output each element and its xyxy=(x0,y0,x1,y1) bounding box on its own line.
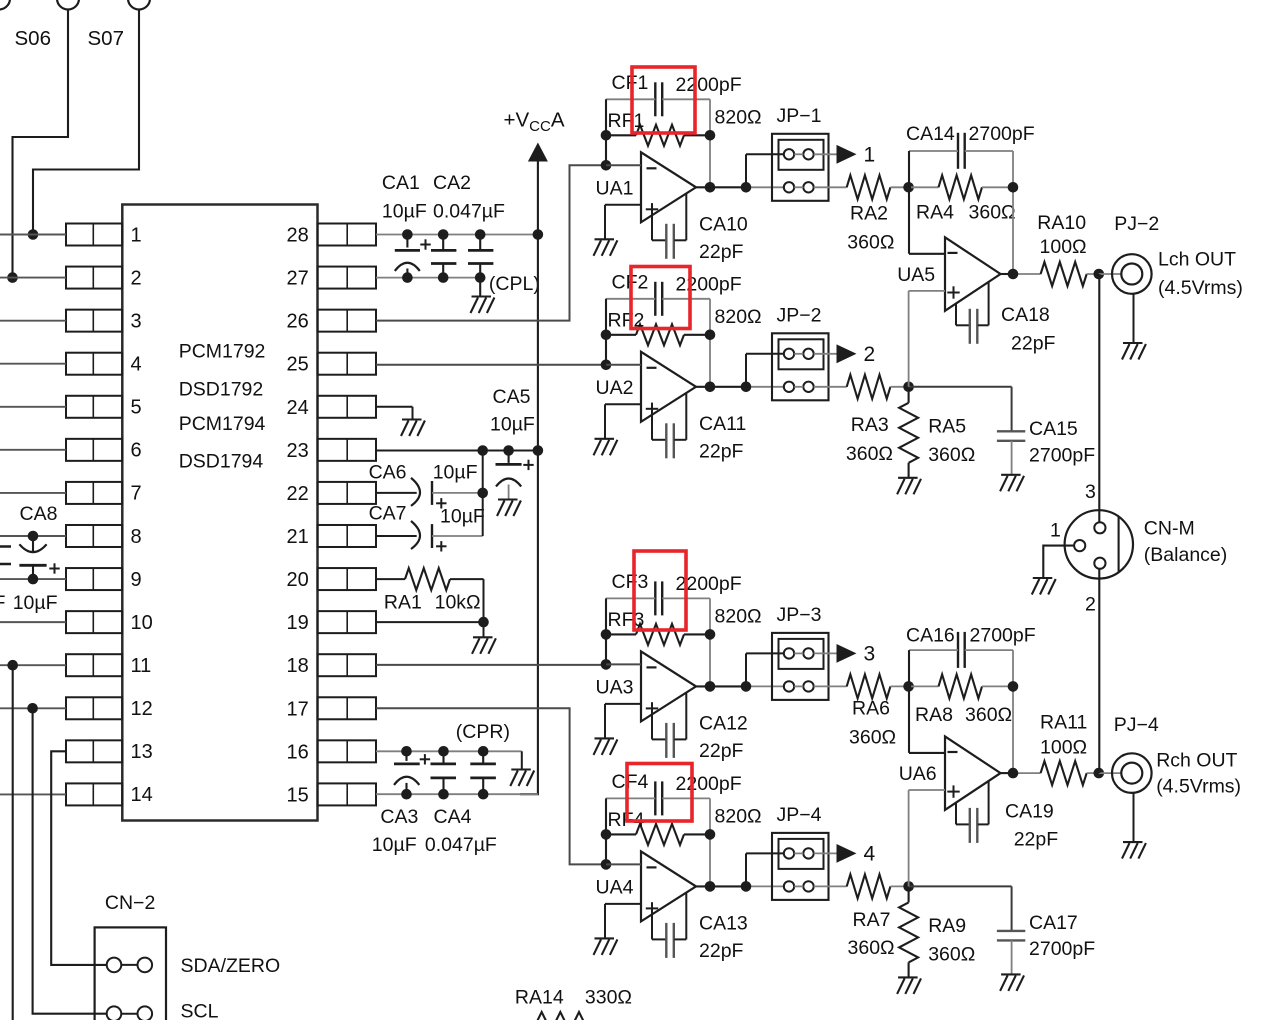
jumper JP-2 pin circles xyxy=(784,349,814,392)
label CA16 xyxy=(906,625,955,647)
svg-text:820Ω: 820Ω xyxy=(715,106,762,128)
svg-text:(Balance): (Balance) xyxy=(1144,544,1227,566)
junction dot pin 11 wire xyxy=(7,660,18,671)
label UA1 xyxy=(596,177,634,199)
svg-text:RA7: RA7 xyxy=(853,909,891,931)
value 10uF (CA7) xyxy=(440,505,485,527)
svg-text:UA5: UA5 xyxy=(897,264,935,286)
label CA2 xyxy=(433,172,471,194)
capacitor CA7 (electrolytic on pin 21) xyxy=(376,521,483,549)
label S07 xyxy=(88,27,124,50)
wire feedback left vertical UA3 xyxy=(605,598,607,664)
wire JP-2 to output arrow xyxy=(814,353,837,355)
wire jack PJ−2 to ground xyxy=(1133,294,1135,343)
junction dot UA3 inverting input xyxy=(601,659,612,670)
wire feedback right vertical UA6 xyxy=(1012,650,1014,773)
wire UA1 output xyxy=(696,186,785,188)
wire pin 5 to left edge xyxy=(0,406,66,408)
svg-text:22pF: 22pF xyxy=(699,440,744,462)
svg-text:RA5: RA5 xyxy=(928,415,966,437)
value 0.047uF (CA2) xyxy=(433,201,505,223)
red highlight box CF2 xyxy=(631,267,690,329)
svg-text:15: 15 xyxy=(287,784,309,806)
svg-text:SCL: SCL xyxy=(181,1000,219,1020)
pin 17 number xyxy=(287,698,309,720)
svg-text:2200pF: 2200pF xyxy=(676,773,742,795)
ground symbol pin 24 xyxy=(401,420,425,437)
cut-off capacitor plates at left edge xyxy=(0,547,11,565)
value 10uF (CA3) xyxy=(372,834,417,856)
junction dots pin 27 rail xyxy=(402,272,485,283)
IC name DSD1792 xyxy=(179,379,264,401)
red highlight box CF3 xyxy=(634,551,686,630)
pin 16 number xyxy=(287,741,309,763)
svg-text:Rch OUT: Rch OUT xyxy=(1156,750,1237,772)
red highlight box CF1 xyxy=(632,67,695,133)
wire UA3 output to JP-3 top row xyxy=(746,653,784,686)
svg-text:CA3: CA3 xyxy=(380,806,418,828)
wire pin 9 to left edge xyxy=(0,578,66,580)
resistor RA9 360 ohm to ground xyxy=(899,886,918,977)
ground below RA9 xyxy=(897,977,921,994)
wire pin 16 rail xyxy=(376,750,522,752)
jumper JP-4 outer box xyxy=(772,833,829,900)
label UA4 xyxy=(596,876,634,898)
svg-text:2200pF: 2200pF xyxy=(676,74,742,96)
svg-text:20: 20 xyxy=(287,569,309,591)
label RA6 xyxy=(852,697,890,719)
svg-text:CN−2: CN−2 xyxy=(105,892,155,914)
ground below CA17 xyxy=(1000,974,1024,991)
junction dots UA2 output xyxy=(705,382,752,393)
wire to jack PJ−4 xyxy=(1099,772,1122,774)
wire JP-1 to output arrow xyxy=(814,153,837,155)
capacitor CA19 22pF xyxy=(956,780,989,843)
IC name PCM1794 xyxy=(179,413,266,435)
output arrow 2 xyxy=(837,344,857,363)
jumper JP-2 outer box xyxy=(772,333,829,400)
svg-text:CA16: CA16 xyxy=(906,625,955,647)
capacitor CF1 plates xyxy=(655,82,662,116)
wire pin 11 down to bottom edge xyxy=(12,665,14,1020)
ground below CA15 xyxy=(1000,475,1024,492)
junction dot RA8 right node xyxy=(1008,681,1019,692)
CN-M pin 3 circle xyxy=(1094,522,1105,533)
pin 26 box xyxy=(318,310,377,332)
label RA1 xyxy=(384,592,422,614)
wire UA6 non-inverting input xyxy=(909,790,945,886)
svg-text:360Ω: 360Ω xyxy=(928,444,975,466)
label UA2 xyxy=(596,377,634,399)
svg-text:CA2: CA2 xyxy=(433,172,471,194)
label CA1 xyxy=(382,172,420,194)
wire UA1 output to JP-1 top row xyxy=(746,154,784,187)
pin 13 box xyxy=(66,740,122,762)
pin 23 box xyxy=(318,439,377,461)
wire UA4 output to JP-4 top row xyxy=(746,853,784,886)
capacitor CA13 22pF xyxy=(652,893,686,958)
svg-text:JP−4: JP−4 xyxy=(777,804,822,826)
output number 1 xyxy=(864,143,876,166)
svg-text:2700pF: 2700pF xyxy=(969,123,1035,145)
svg-text:JP−2: JP−2 xyxy=(777,305,822,327)
svg-text:CA15: CA15 xyxy=(1029,418,1078,440)
IC name PCM1792 xyxy=(179,341,266,363)
svg-text:2700pF: 2700pF xyxy=(1029,938,1095,960)
svg-text:22pF: 22pF xyxy=(699,740,744,762)
svg-text:28: 28 xyxy=(287,225,309,247)
wire CN-M pin 2 to RA11 node xyxy=(1098,569,1100,774)
pin 20 box xyxy=(318,568,377,590)
svg-text:10µF: 10µF xyxy=(372,834,417,856)
wire JP-3 to RA resistor xyxy=(814,685,847,687)
ground below RA1 xyxy=(472,637,496,654)
value 100 ohm (RA11) xyxy=(1040,737,1087,759)
junction dots feedback UA1 xyxy=(601,130,716,141)
svg-text:PCM1792: PCM1792 xyxy=(179,341,266,363)
wire feedback left vertical UA4 xyxy=(605,798,607,864)
junction dot UA6 output xyxy=(1008,768,1019,779)
op-amp UA2 triangle xyxy=(641,352,696,422)
connector CN-M body circle xyxy=(1065,510,1133,578)
svg-text:2700pF: 2700pF xyxy=(970,625,1036,647)
pin 6 box xyxy=(66,439,122,461)
pin 14 box xyxy=(66,783,122,805)
value 820 ohm (RF1) xyxy=(715,106,762,128)
wire pin 14 to left edge xyxy=(0,793,66,795)
svg-text:9: 9 xyxy=(131,569,142,591)
value 2200pF (CF2) xyxy=(676,273,742,295)
pin 3 number xyxy=(131,310,142,332)
junction dot pin 9 wire xyxy=(28,574,39,585)
label UA3 xyxy=(596,676,634,698)
svg-text:(CPL): (CPL) xyxy=(489,273,540,295)
label RF1 xyxy=(608,110,645,132)
wire feedback top of UA2 xyxy=(606,298,710,300)
pin 6 number xyxy=(131,440,142,462)
label CA5 xyxy=(493,386,531,408)
pin 17 box xyxy=(318,697,377,719)
wire pin 25 to UA2 input xyxy=(376,364,607,366)
junction dot on pin 1 wire xyxy=(28,229,39,240)
label CA6 xyxy=(369,462,407,484)
pin 21 number xyxy=(287,526,309,548)
pin 9 box xyxy=(66,568,122,590)
CN-M pin numbers xyxy=(1050,481,1096,616)
svg-text:13: 13 xyxy=(131,741,153,763)
op-amp UA6 plus sign xyxy=(947,785,959,797)
label SCL xyxy=(181,1000,219,1020)
pin 4 box xyxy=(66,353,122,375)
capacitor CA12 22pF xyxy=(652,693,686,758)
junction dot RA6 node xyxy=(903,681,914,692)
svg-text:2700pF: 2700pF xyxy=(1029,444,1095,466)
wire pin 12 to CN-2 SCL xyxy=(33,708,108,1013)
label (CPL) xyxy=(489,273,540,295)
svg-text:UA6: UA6 xyxy=(899,763,937,785)
svg-text:8: 8 xyxy=(131,526,142,548)
value 2700pF (CA15) xyxy=(1029,444,1095,466)
capacitor CA6 (electrolytic on pin 22) xyxy=(376,478,483,506)
ground at UA4 non-inverting input xyxy=(594,938,618,955)
red highlight box CF4 xyxy=(627,764,692,822)
svg-text:UA1: UA1 xyxy=(596,177,634,199)
wire UA3 non-inverting input to ground xyxy=(605,704,641,739)
junction dots UA4 output xyxy=(705,881,752,892)
pin 8 box xyxy=(66,525,122,547)
wire node to CA17 xyxy=(909,886,1012,931)
wire jack PJ−4 to ground xyxy=(1133,793,1135,842)
pin 8 number xyxy=(131,526,142,548)
svg-text:RA3: RA3 xyxy=(851,414,889,436)
svg-text:RA10: RA10 xyxy=(1037,212,1086,234)
svg-text:CA5: CA5 xyxy=(493,386,531,408)
label RA14 xyxy=(515,986,564,1008)
cut-off label 10uF at left edge xyxy=(0,592,58,614)
CN-M pin 1 circle xyxy=(1074,540,1085,551)
label CA12 xyxy=(699,712,748,734)
value 360 ohm (RA7) xyxy=(848,937,895,959)
pin 25 box xyxy=(318,353,377,375)
svg-text:820Ω: 820Ω xyxy=(715,605,762,627)
wire S06 to pin 2 xyxy=(13,10,69,278)
pin 22 box xyxy=(318,482,377,504)
jumper JP-4 inner box xyxy=(779,839,824,869)
value 22pF (CA12) xyxy=(699,740,744,762)
ground at UA2 non-inverting input xyxy=(594,439,618,456)
value 820 ohm (RF4) xyxy=(715,805,762,827)
plus sign of CA8 xyxy=(49,563,59,573)
capacitor CA5 (electrolytic to ground) xyxy=(496,451,522,500)
svg-text:(4.5Vrms): (4.5Vrms) xyxy=(1158,277,1243,299)
junction dot UA1 inverting input xyxy=(601,160,612,171)
capacitor CA15 2700pF xyxy=(997,431,1025,475)
label PJ−4 xyxy=(1114,714,1159,736)
label CA11 xyxy=(699,413,746,435)
wire UA2 input segment xyxy=(606,364,641,366)
label CA10 xyxy=(699,213,748,235)
op-amp UA1 minus sign xyxy=(647,167,657,169)
pin 19 box xyxy=(318,611,377,633)
svg-text:DSD1792: DSD1792 xyxy=(179,379,264,401)
capacitor CA3 (electrolytic) xyxy=(394,751,420,794)
capacitor CA10 22pF xyxy=(652,194,686,259)
svg-text:0.047µF: 0.047µF xyxy=(433,201,505,223)
wire UA2 output to JP-2 top row xyxy=(746,354,784,387)
junction dot pin 19 xyxy=(478,617,489,628)
junction dots feedback UA4 xyxy=(601,829,716,840)
value 22pF (CA18) xyxy=(1011,333,1056,355)
wire UA4 output xyxy=(696,885,785,887)
svg-text:CA11: CA11 xyxy=(699,413,746,435)
svg-text:21: 21 xyxy=(287,526,309,548)
svg-text:RA2: RA2 xyxy=(850,203,888,225)
label (4.5Vrms) xyxy=(1156,776,1241,798)
svg-text:360Ω: 360Ω xyxy=(847,232,894,254)
pin 2 number xyxy=(131,267,142,289)
svg-text:PJ−2: PJ−2 xyxy=(1114,213,1159,235)
label RA5 xyxy=(928,415,966,437)
pin 5 number xyxy=(131,397,142,419)
svg-text:4: 4 xyxy=(131,354,142,376)
value 10uF (CA1) xyxy=(382,201,427,223)
value 360 ohm (RA6) xyxy=(849,726,896,748)
svg-text:JP−1: JP−1 xyxy=(777,105,822,127)
resistor RA4 360 ohm xyxy=(911,175,1013,199)
resistor RA5 360 ohm to ground xyxy=(899,387,918,478)
resistor RA1 10k on pin 20 xyxy=(376,568,484,590)
svg-text:100Ω: 100Ω xyxy=(1040,236,1087,258)
IC U1 body PCM1792/DSD1792/PCM1794/DSD1794 xyxy=(122,205,317,821)
junction dot UA4 inverting input xyxy=(601,859,612,870)
pin 5 box xyxy=(66,396,122,418)
junction dot RA4 right node xyxy=(1008,182,1019,193)
label CN-M xyxy=(1144,518,1195,540)
plus sign of CA5 xyxy=(523,460,533,470)
svg-text:2200pF: 2200pF xyxy=(676,273,742,295)
svg-text:10µF: 10µF xyxy=(490,414,535,436)
label Lch OUT xyxy=(1158,248,1236,270)
svg-text:2: 2 xyxy=(131,267,142,289)
svg-text:27: 27 xyxy=(287,268,309,290)
label RA10 xyxy=(1037,212,1086,234)
pin 24 box xyxy=(318,396,377,418)
svg-text:22pF: 22pF xyxy=(1011,333,1056,355)
svg-text:360Ω: 360Ω xyxy=(849,726,896,748)
pin 2 box xyxy=(66,267,122,289)
junction dots UA3 output xyxy=(705,681,752,692)
svg-text:PJ−4: PJ−4 xyxy=(1114,714,1159,736)
value 820 ohm (RF3) xyxy=(715,605,762,627)
wire feedback right vertical UA4 xyxy=(709,798,711,886)
wire pin 6 to left edge xyxy=(0,449,66,451)
RCA jack PJ−4 xyxy=(1112,753,1152,793)
wire pin 27 rail xyxy=(376,277,480,279)
svg-text:Lch OUT: Lch OUT xyxy=(1158,248,1236,270)
capacitor CA4 xyxy=(431,751,457,794)
svg-text:10µF: 10µF xyxy=(13,592,58,614)
svg-text:17: 17 xyxy=(287,698,309,720)
wire pin 26 to UA1 input xyxy=(376,165,607,320)
label RF3 xyxy=(608,609,645,631)
svg-text:RA11: RA11 xyxy=(1040,712,1087,734)
wire feedback left vertical UA2 xyxy=(605,299,607,365)
jumper JP-1 inner box xyxy=(779,140,824,170)
svg-text:CA1: CA1 xyxy=(382,172,420,194)
svg-text:10: 10 xyxy=(131,612,153,634)
svg-text:6: 6 xyxy=(131,440,142,462)
label RA3 xyxy=(851,414,889,436)
svg-text:RF1: RF1 xyxy=(608,110,645,132)
value 2700pF (CA14) xyxy=(969,123,1035,145)
jumper JP-4 pin circles xyxy=(784,848,814,891)
svg-text:12: 12 xyxy=(131,698,153,720)
svg-text:RA6: RA6 xyxy=(852,697,890,719)
wire JP-3 to output arrow xyxy=(814,652,837,654)
pin 27 number xyxy=(287,268,309,290)
op-amp UA6 triangle xyxy=(945,736,1001,810)
wire pin 11 to left edge xyxy=(0,664,66,666)
svg-text:1: 1 xyxy=(864,143,876,166)
resistor RF2 820 ohm xyxy=(606,324,710,345)
capacitor CF1 label xyxy=(612,72,649,94)
svg-text:3: 3 xyxy=(864,642,876,665)
pin 21 box xyxy=(318,525,377,547)
pin 20 number xyxy=(287,569,309,591)
plus sign of CA3 xyxy=(420,754,430,764)
resistor RA6 360 ohm xyxy=(847,674,909,698)
svg-text:CA19: CA19 xyxy=(1005,801,1054,823)
svg-text:S06: S06 xyxy=(15,27,51,50)
capacitor CF2 label xyxy=(612,271,649,293)
svg-text:330Ω: 330Ω xyxy=(585,986,632,1008)
svg-text:CA10: CA10 xyxy=(699,213,748,235)
junction dots pin 23 rail xyxy=(477,445,514,456)
svg-text:16: 16 xyxy=(287,741,309,763)
pin 14 number xyxy=(131,784,153,806)
plus sign of CA7 xyxy=(436,541,446,551)
op-amp UA3 triangle xyxy=(641,651,696,721)
jumper JP-3 pin circles xyxy=(784,648,814,691)
wire CN-M pin 1 to ground xyxy=(1043,546,1074,578)
IC name DSD1794 xyxy=(179,451,264,473)
label RF2 xyxy=(608,310,645,332)
capacitor CA14 plates xyxy=(958,133,965,169)
svg-text:360Ω: 360Ω xyxy=(846,443,893,465)
jumper JP-3 label xyxy=(777,604,822,626)
svg-text:(4.5Vrms): (4.5Vrms) xyxy=(1156,776,1241,798)
power +VccA label xyxy=(504,109,565,136)
output arrow 1 xyxy=(837,145,857,164)
label RF4 xyxy=(608,809,645,831)
svg-text:3: 3 xyxy=(131,310,142,332)
ground below jack PJ−2 xyxy=(1122,343,1146,360)
plus sign of CA1 xyxy=(420,239,430,249)
svg-text:360Ω: 360Ω xyxy=(969,202,1016,224)
wire UA6 output xyxy=(1001,772,1041,774)
switch S07 pad circle xyxy=(128,0,150,10)
wire to jack PJ−2 xyxy=(1099,273,1122,275)
capacitor CA16 plates xyxy=(958,632,965,668)
svg-text:DSD1794: DSD1794 xyxy=(179,451,264,473)
value 360 ohm (RA8) xyxy=(965,704,1012,726)
ground below RA5 xyxy=(897,478,921,495)
wire feedback top of UA1 xyxy=(606,98,710,100)
label (CPR) xyxy=(456,721,510,743)
op-amp UA4 minus sign xyxy=(647,866,657,868)
jumper JP-2 inner box xyxy=(779,339,824,369)
wire pin 18 to UA3 input xyxy=(376,664,607,666)
value 100 ohm (RA10) xyxy=(1040,236,1087,258)
wire S07 to pin 1 xyxy=(33,10,139,235)
junction dot RA7 node xyxy=(903,881,914,892)
svg-text:CA17: CA17 xyxy=(1029,912,1078,934)
jumper JP-3 outer box xyxy=(772,633,829,700)
jumper JP-3 inner box xyxy=(779,639,824,669)
value 360 ohm (RA5) xyxy=(928,444,975,466)
junction dots feedback UA2 xyxy=(601,330,716,341)
svg-text:820Ω: 820Ω xyxy=(715,306,762,328)
pin 19 number xyxy=(287,612,309,634)
svg-text:24: 24 xyxy=(287,397,309,419)
label CA7 xyxy=(369,503,407,525)
third capacitor of CPR block xyxy=(470,751,496,794)
pin 7 box xyxy=(66,482,122,504)
label (Balance) xyxy=(1144,544,1227,566)
capacitor CA11 22pF xyxy=(652,394,686,459)
svg-text:360Ω: 360Ω xyxy=(928,943,975,965)
ground on pin 24 xyxy=(376,407,413,420)
